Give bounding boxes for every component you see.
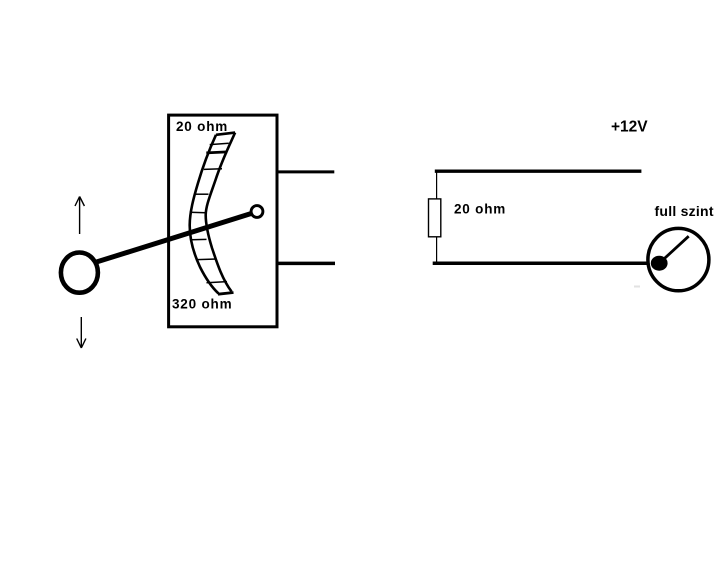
track top cap [216,133,235,135]
stray mark [634,286,640,288]
sender box [169,115,277,327]
terminal stub top [277,170,334,173]
needle [659,236,688,263]
up arrow (float travel) [75,197,84,235]
wiper pivot [251,206,263,218]
float [61,253,98,293]
terminal stub bottom [277,262,335,266]
wire: resistor to return wire [436,237,438,263]
needle hub [651,256,668,271]
svg-text:full szint: full szint [655,203,714,219]
lever arm [94,213,252,262]
wire: supply to resistor [436,171,438,198]
gauge body [648,228,709,290]
down arrow (float travel) [77,317,86,348]
svg-text:20 ohm: 20 ohm [176,119,228,134]
svg-text:320 ohm: 320 ohm [172,297,232,312]
resistive track outer curve [190,135,219,294]
track bottom cap [218,293,234,295]
resistive track inner curve [206,133,235,292]
track segment rungs [190,143,229,282]
top supply wire [435,169,642,172]
svg-text:20 ohm: 20 ohm [454,202,506,217]
resistor 20 ohm [429,199,441,237]
return wire to gauge [433,262,652,266]
svg-text:+12V: +12V [611,118,648,135]
